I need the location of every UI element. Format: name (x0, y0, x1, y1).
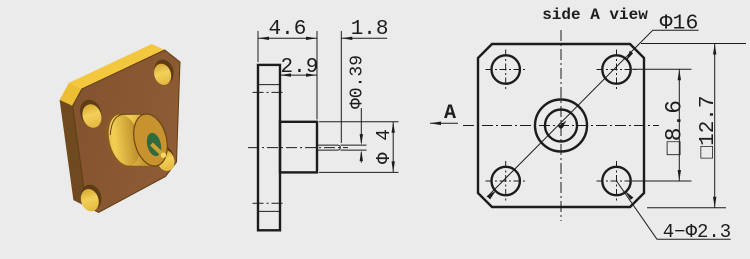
square flange outline with chamfers (478, 44, 644, 207)
barrel wall top outline (110, 114, 144, 135)
dim phi4 extension lines (319, 121, 399, 123)
bottom hole centerline (253, 202, 286, 204)
barrel side wall (118, 114, 158, 166)
center circles (535, 100, 587, 152)
diagonal leader for phi16 (487, 30, 653, 197)
barrel face (129, 110, 173, 169)
dielectric (145, 131, 164, 157)
dim 8.6 extension lines (632, 68, 692, 70)
flange front face (73, 50, 180, 212)
dim 1.8 extension line at pin tip (340, 31, 342, 143)
svg-text:side A view: side A view (542, 6, 648, 24)
dim 2.9 line (280, 74, 317, 76)
dim 4.6 extension lines (257, 31, 259, 62)
left side face band (60, 100, 87, 206)
svg-text:4.6: 4.6 (268, 18, 306, 41)
dim phi4 line and arrows (392, 122, 394, 173)
corner holes (492, 55, 520, 83)
main centerlines (463, 125, 659, 127)
top-left chamfer band (60, 83, 82, 106)
top face band (69, 44, 165, 89)
center pin circle (559, 123, 564, 128)
svg-text:□12.7: □12.7 (697, 95, 720, 158)
svg-text:4−Φ2.3: 4−Φ2.3 (663, 221, 731, 243)
bottom hole edge lines (258, 210, 280, 212)
svg-text:2.9: 2.9 (280, 56, 318, 79)
svg-text:□8.6: □8.6 (662, 100, 688, 155)
body outline (280, 122, 317, 173)
dim 4.6 line (258, 37, 317, 39)
flange plate outline (258, 65, 280, 230)
pin (152, 144, 164, 156)
barrel base shadow ring (100, 109, 145, 170)
main centerline (248, 147, 348, 149)
top hole edge lines (258, 84, 280, 86)
svg-text:Φ16: Φ16 (660, 12, 699, 36)
dim 1.8 line and arrow (341, 37, 387, 39)
leader 4-phi2.3 (617, 181, 658, 239)
svg-text:1.8: 1.8 (351, 18, 389, 41)
dim 12.7 line and arrows (714, 44, 716, 208)
diagonal arrowheads (487, 191, 496, 200)
dim 8.6 line and arrows (678, 69, 680, 181)
hole bottom-right (151, 143, 177, 173)
hole crosshairs (486, 50, 637, 202)
svg-text:A: A (444, 102, 456, 125)
svg-text:Φ 4: Φ 4 (373, 129, 395, 164)
pin outline (317, 145, 340, 150)
top hole centerline (253, 91, 286, 93)
hole bottom-left (78, 182, 105, 214)
dim phi0.39 line and arrows (360, 108, 362, 143)
svg-text:Φ0.39: Φ0.39 (348, 55, 368, 109)
dim phi0.39 extension lines (341, 144, 367, 146)
dim 12.7 extension lines (641, 43, 746, 45)
hole top-right (151, 57, 176, 87)
hole top-left (77, 97, 105, 130)
bottom-left chamfer band (73, 200, 98, 212)
